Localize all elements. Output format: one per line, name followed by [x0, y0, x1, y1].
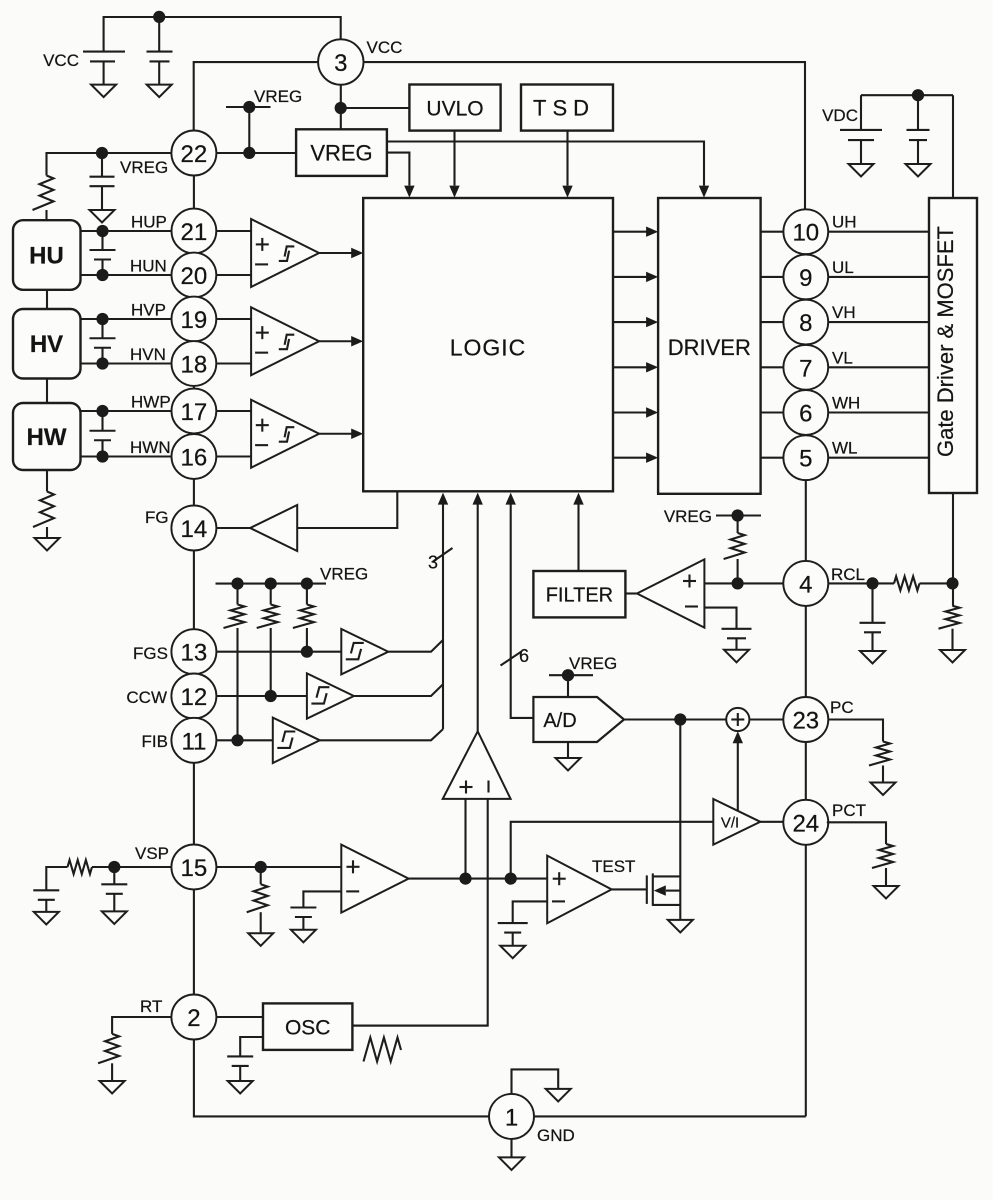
svg-text:FG: FG [145, 508, 169, 527]
svg-text:HV: HV [30, 331, 63, 358]
svg-text:PC: PC [830, 698, 854, 717]
svg-text:23: 23 [792, 708, 819, 735]
svg-text:12: 12 [181, 684, 208, 711]
svg-text:LOGIC: LOGIC [450, 335, 527, 361]
svg-text:A/D: A/D [543, 710, 576, 732]
svg-text:HUP: HUP [131, 213, 167, 232]
svg-text:16: 16 [181, 445, 208, 472]
svg-text:20: 20 [181, 263, 208, 290]
svg-text:1: 1 [505, 1104, 518, 1131]
svg-text:CCW: CCW [126, 688, 167, 707]
svg-text:14: 14 [181, 516, 208, 543]
svg-text:4: 4 [799, 571, 812, 598]
svg-text:VH: VH [832, 303, 856, 322]
svg-text:WL: WL [832, 439, 858, 458]
svg-text:24: 24 [792, 810, 819, 837]
svg-text:HVN: HVN [130, 345, 166, 364]
svg-text:22: 22 [181, 141, 208, 168]
svg-text:18: 18 [181, 352, 208, 379]
svg-text:TSD: TSD [533, 96, 595, 121]
svg-text:21: 21 [181, 219, 208, 246]
svg-text:VREG: VREG [120, 158, 168, 177]
svg-text:2: 2 [187, 1005, 200, 1032]
svg-text:VREG: VREG [310, 141, 372, 166]
svg-text:5: 5 [799, 446, 812, 473]
svg-text:WH: WH [832, 394, 860, 413]
svg-text:DRIVER: DRIVER [668, 335, 751, 360]
svg-text:VREG: VREG [254, 87, 302, 106]
svg-text:VDC: VDC [822, 106, 858, 125]
svg-text:HUN: HUN [130, 257, 167, 276]
svg-text:HWN: HWN [130, 438, 171, 457]
svg-text:RT: RT [140, 997, 162, 1016]
svg-text:PCT: PCT [832, 801, 866, 820]
svg-text:13: 13 [181, 640, 208, 667]
svg-text:VREG: VREG [320, 565, 368, 584]
svg-text:11: 11 [181, 728, 206, 755]
svg-text:VSP: VSP [135, 844, 169, 863]
svg-text:UVLO: UVLO [426, 98, 483, 121]
svg-text:10: 10 [792, 220, 819, 247]
svg-text:15: 15 [181, 855, 208, 882]
svg-text:19: 19 [181, 307, 208, 334]
svg-text:6: 6 [519, 646, 529, 666]
svg-text:3: 3 [334, 50, 347, 77]
svg-text:HVP: HVP [131, 301, 166, 320]
svg-text:HU: HU [29, 243, 64, 270]
svg-text:UL: UL [832, 258, 854, 277]
svg-text:HWP: HWP [131, 393, 171, 412]
svg-text:17: 17 [181, 399, 208, 426]
svg-text:TEST: TEST [592, 857, 635, 876]
svg-text:VREG: VREG [664, 507, 712, 526]
svg-text:FILTER: FILTER [546, 585, 613, 607]
svg-text:HW: HW [27, 424, 67, 451]
svg-text:V/I: V/I [721, 815, 739, 832]
svg-text:6: 6 [799, 401, 812, 428]
svg-text:7: 7 [799, 355, 812, 382]
svg-text:VREG: VREG [569, 654, 617, 673]
svg-text:FIB: FIB [142, 732, 168, 751]
svg-text:RCL: RCL [831, 565, 865, 584]
svg-text:OSC: OSC [285, 1017, 331, 1040]
svg-text:VL: VL [832, 348, 853, 367]
svg-text:3: 3 [428, 553, 438, 573]
svg-text:Gate Driver & MOSFET: Gate Driver & MOSFET [933, 226, 958, 457]
svg-text:8: 8 [799, 310, 812, 337]
svg-text:VCC: VCC [367, 38, 403, 57]
svg-text:VCC: VCC [43, 51, 79, 70]
svg-text:GND: GND [537, 1126, 575, 1145]
svg-text:FGS: FGS [133, 644, 168, 663]
svg-text:9: 9 [799, 265, 812, 292]
svg-text:UH: UH [832, 213, 857, 232]
